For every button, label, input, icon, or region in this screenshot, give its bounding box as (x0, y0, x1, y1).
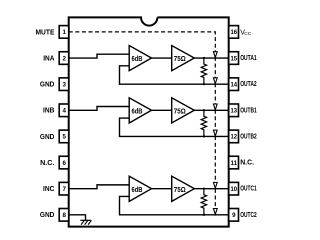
wire INC: pin input to 6dB amp (with step up) (69, 185, 130, 189)
pin 2 box (left side, INA) (59, 52, 68, 65)
pin 11 box (right side, N.C.) (229, 156, 239, 169)
junction dot OUTC2 / resistor bottom (203, 214, 205, 216)
pin 3 box (left side, GND) (59, 78, 68, 91)
svg-text:6: 6 (62, 160, 66, 167)
svg-text:INA: INA (43, 55, 54, 62)
mute arrowhead onto pin 14 output line (213, 78, 217, 84)
op-amp 75-ohm output driver channel A (172, 46, 195, 71)
wire OUTC2 and feedback to 6dB inverting input (120, 196, 229, 214)
junction dot OUTA1 / resistor top (203, 57, 205, 59)
wire OUTB1: driver output to pin 13 (194, 109, 228, 111)
resistor 75-ohm internal, channel A (between OUTA1 and OUTA2) (201, 58, 206, 84)
pin 6 box (left side, N.C.) (59, 156, 68, 169)
svg-text:1: 1 (62, 29, 66, 36)
svg-text:10: 10 (231, 186, 238, 193)
wire 6dB output to 75-ohm driver channel B (152, 109, 172, 111)
svg-text:12: 12 (231, 134, 238, 141)
svg-text:5: 5 (62, 134, 66, 141)
wire OUTB2 and feedback to 6dB inverting input (120, 118, 229, 136)
svg-text:GND: GND (40, 212, 55, 219)
pin 5 box (left side, GND) (59, 130, 68, 143)
svg-text:N.C.: N.C. (40, 160, 54, 167)
wire pin 8 GND to ground symbol (69, 215, 86, 220)
svg-text:OUTC1: OUTC1 (240, 186, 257, 193)
svg-text:CC: CC (244, 31, 251, 37)
svg-text:13: 13 (231, 108, 238, 115)
pin 7 box (left side, INC) (59, 182, 68, 195)
pin 4 box (left side, INB) (59, 104, 68, 117)
svg-text:OUTC2: OUTC2 (240, 212, 257, 219)
pin 14 box (right side, OUTA2) (229, 78, 239, 91)
op-amp 75-ohm output driver channel B (172, 98, 195, 123)
wire 6dB output to 75-ohm driver channel A (152, 57, 172, 59)
IC package body U1 (16-pin DIP outline with index notch) (69, 17, 229, 226)
mute arrowhead onto pin 13 output line (213, 104, 217, 110)
pin 12 box (right side, OUTB2) (229, 130, 239, 143)
svg-text:6dB: 6dB (132, 56, 143, 63)
junction dot OUTC1 / resistor top (203, 187, 205, 189)
mute control dashed line from pin 1 (horizontal then vertical) (69, 32, 216, 215)
wire INB: pin input to 6dB amp (with step up) (69, 106, 130, 110)
wire 6dB output to 75-ohm driver channel C (152, 188, 172, 190)
svg-text:75Ω: 75Ω (174, 108, 186, 115)
svg-text:OUTB2: OUTB2 (240, 133, 257, 140)
wire OUTA2 and feedback to 6dB inverting input (120, 66, 229, 84)
mute arrowhead onto pin 10 output line (213, 182, 217, 188)
svg-text:6dB: 6dB (132, 108, 143, 115)
mute arrowhead onto pin 9 output line (213, 209, 217, 215)
svg-text:OUTA1: OUTA1 (240, 55, 257, 62)
pin 15 box (right side, OUTA1) (229, 52, 239, 65)
op-amp 6dB gain stage channel C (129, 176, 151, 201)
svg-text:3: 3 (62, 81, 66, 88)
svg-text:INB: INB (43, 108, 54, 115)
pin 8 box (left side, GND) (59, 209, 68, 222)
pin 9 box (right side, OUTC2) (229, 209, 239, 222)
pin 10 box (right side, OUTC1) (229, 182, 239, 195)
pin 13 box (right side, OUTB1) (229, 104, 239, 117)
junction dot OUTB1 / resistor top (203, 109, 205, 111)
wire INA: pin input to 6dB amp (with step up) (69, 54, 130, 58)
pin 16 box (right side, Vcc) (229, 26, 239, 39)
svg-text:OUTA2: OUTA2 (240, 81, 257, 88)
svg-text:GND: GND (40, 82, 55, 89)
svg-text:8: 8 (62, 212, 66, 219)
ground symbol (chassis ground) (80, 220, 91, 224)
mute arrowhead onto pin 12 output line (213, 130, 217, 136)
svg-text:7: 7 (62, 186, 66, 193)
op-amp 6dB gain stage channel B (129, 98, 151, 123)
svg-text:16: 16 (231, 29, 238, 36)
svg-text:9: 9 (232, 212, 236, 219)
junction dot OUTB2 / resistor bottom (203, 135, 205, 137)
svg-text:75Ω: 75Ω (174, 187, 186, 194)
svg-text:2: 2 (62, 55, 66, 62)
svg-text:6dB: 6dB (132, 187, 143, 194)
svg-text:14: 14 (231, 81, 238, 88)
svg-text:INC: INC (43, 186, 54, 193)
op-amp 6dB gain stage channel A (129, 46, 151, 71)
mute arrowhead onto pin 15 output line (213, 52, 217, 58)
op-amp 75-ohm output driver channel C (172, 176, 195, 201)
svg-text:GND: GND (40, 134, 55, 141)
wire OUTA1: driver output to pin 15 (194, 57, 228, 59)
svg-text:OUTB1: OUTB1 (240, 107, 257, 114)
resistor 75-ohm internal, channel B (between OUTB1 and OUTB2) (201, 110, 206, 136)
junction dot OUTA2 / resistor bottom (203, 83, 205, 85)
pin 1 box (left side, MUTE) (59, 26, 68, 39)
resistor 75-ohm internal, channel C (between OUTC1 and OUTC2) (201, 189, 206, 215)
svg-text:75Ω: 75Ω (174, 56, 186, 63)
svg-text:N.C.: N.C. (240, 160, 254, 167)
svg-text:MUTE: MUTE (36, 29, 55, 36)
svg-text:15: 15 (231, 55, 238, 62)
wire OUTC1: driver output to pin 10 (194, 188, 228, 190)
svg-text:4: 4 (62, 108, 66, 115)
svg-text:11: 11 (231, 160, 238, 167)
